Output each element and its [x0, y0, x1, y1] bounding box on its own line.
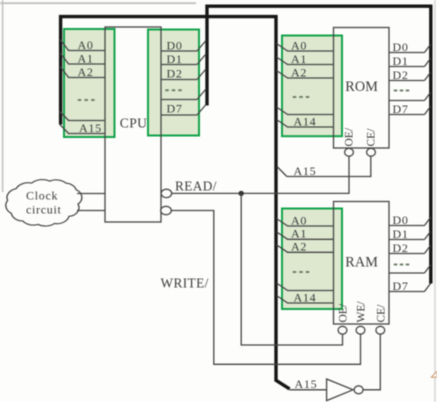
svg-text:A15: A15 — [294, 164, 317, 178]
wire junction to RAM OE/ — [241, 193, 342, 345]
wire A15 to ROM CE/ — [277, 156, 371, 176]
CPU pin D0 — [161, 41, 206, 52]
svg-text:D2: D2 — [393, 241, 409, 255]
clock circuit cloud — [6, 180, 82, 226]
svg-text:WRITE/: WRITE/ — [161, 276, 209, 291]
junction node on READ/ wire — [239, 191, 244, 196]
RAM pin D2 — [389, 246, 431, 254]
RAM pin D0 — [389, 218, 431, 226]
RAM address ellipsis — [293, 271, 310, 273]
svg-text:A15: A15 — [79, 121, 102, 135]
RAM pin A13 row — [277, 283, 334, 291]
svg-text:ROM: ROM — [345, 79, 378, 95]
CPU pin D2 — [161, 69, 206, 80]
address bus (thick) CPU A0-A15 to ROM/RAM — [61, 17, 290, 389]
RAM pin OE/ bubble — [338, 326, 347, 334]
svg-text:A0: A0 — [291, 38, 307, 52]
svg-text:A1: A1 — [291, 52, 307, 66]
RAM U3 body — [334, 202, 390, 325]
svg-text:OE/: OE/ — [338, 303, 350, 322]
ROM pin OE/ bubble — [345, 148, 354, 156]
ROM pin A1 — [277, 57, 334, 65]
ROM pin D1 — [389, 59, 431, 67]
RAM pin D6 row — [389, 265, 431, 273]
CPU WRITE/ pin bubble — [161, 206, 172, 214]
RAM pin WE/ bubble — [356, 326, 365, 334]
svg-text:D7: D7 — [167, 102, 183, 116]
CPU pin D6 row — [161, 89, 206, 100]
svg-text:D0: D0 — [167, 38, 183, 52]
svg-text:CE/: CE/ — [366, 128, 378, 147]
CPU pin D1 — [161, 54, 206, 65]
ROM pin D2 — [389, 73, 431, 81]
svg-text:D1: D1 — [393, 54, 409, 68]
CPU data ellipsis — [165, 89, 182, 91]
highlight box RAM address pins — [282, 209, 342, 310]
ROM pin D0 — [389, 45, 431, 53]
wire READ/ to ROM OE/ — [172, 156, 349, 193]
svg-text:D0: D0 — [393, 213, 409, 227]
ROM pin D6 row — [389, 93, 431, 101]
svg-text:D7: D7 — [393, 279, 409, 293]
svg-text:circuit: circuit — [26, 203, 62, 217]
ROM pin A14 — [277, 120, 334, 128]
RAM pin D7 — [389, 284, 431, 292]
svg-text:A14: A14 — [294, 115, 317, 129]
svg-text:CPU: CPU — [120, 115, 147, 130]
RAM pin A14 — [277, 296, 334, 304]
CPU address ellipsis — [78, 99, 95, 101]
svg-text:Clock: Clock — [26, 189, 58, 203]
svg-text:A2: A2 — [291, 240, 307, 254]
clock wire 1 — [77, 193, 105, 195]
svg-text:D1: D1 — [167, 52, 183, 66]
highlight box CPU address pins — [64, 29, 115, 137]
RAM pin A0 — [277, 219, 334, 227]
CPU pin A2 — [60, 67, 105, 78]
wire WRITE/ to RAM WE/ — [171, 211, 360, 365]
wire inverter output to RAM CE/ — [363, 334, 380, 390]
svg-text:CE/: CE/ — [376, 304, 388, 323]
svg-text:D1: D1 — [393, 227, 409, 241]
inverter U4 — [327, 379, 364, 401]
RAM pin D1 — [389, 232, 431, 240]
svg-text:D0: D0 — [393, 40, 409, 54]
svg-text:READ/: READ/ — [175, 178, 217, 193]
ROM pin D7 — [389, 107, 431, 115]
RAM data ellipsis — [394, 264, 410, 266]
RAM pin CE/ bubble — [376, 326, 385, 334]
svg-text:RAM: RAM — [345, 254, 378, 270]
CPU pin A14 row — [60, 112, 105, 121]
svg-text:OE/: OE/ — [344, 127, 356, 146]
CPU pin A1 — [60, 53, 105, 64]
svg-text:A1: A1 — [78, 51, 94, 65]
svg-text:D2: D2 — [393, 68, 409, 82]
ROM pin CE/ bubble — [367, 148, 376, 156]
wire A15 to inverter input — [290, 389, 327, 391]
svg-text:A1: A1 — [291, 227, 307, 241]
CPU pin A0 — [60, 40, 105, 51]
svg-text:A14: A14 — [294, 290, 317, 304]
RAM pin A2 — [277, 245, 334, 253]
svg-text:D7: D7 — [393, 102, 409, 116]
CPU READ/ pin bubble — [161, 189, 172, 197]
ROM pin A13 row — [277, 107, 334, 115]
ROM address ellipsis — [293, 96, 310, 98]
RAM pin A1 — [277, 232, 334, 240]
svg-text:A2: A2 — [78, 65, 94, 79]
clock wire 2 — [77, 210, 105, 212]
highlight box ROM address pins — [282, 36, 342, 137]
svg-text:A0: A0 — [291, 213, 307, 227]
CPU pin A15 — [60, 125, 105, 134]
svg-text:A2: A2 — [291, 65, 307, 79]
svg-text:WE/: WE/ — [356, 301, 368, 323]
svg-text:A0: A0 — [78, 38, 94, 52]
ROM pin A0 — [277, 44, 334, 52]
CPU pin D7 — [161, 105, 206, 116]
svg-text:D2: D2 — [167, 66, 183, 80]
ROM pin A2 — [277, 71, 334, 79]
data bus (thick) CPU D0-D7 to ROM/RAM — [207, 6, 431, 283]
CPU U1 body — [105, 27, 161, 222]
svg-text:A15: A15 — [295, 377, 318, 391]
ROM data ellipsis — [394, 90, 410, 92]
ROM U2 body — [334, 28, 390, 149]
highlight box CPU data pins — [148, 30, 199, 136]
